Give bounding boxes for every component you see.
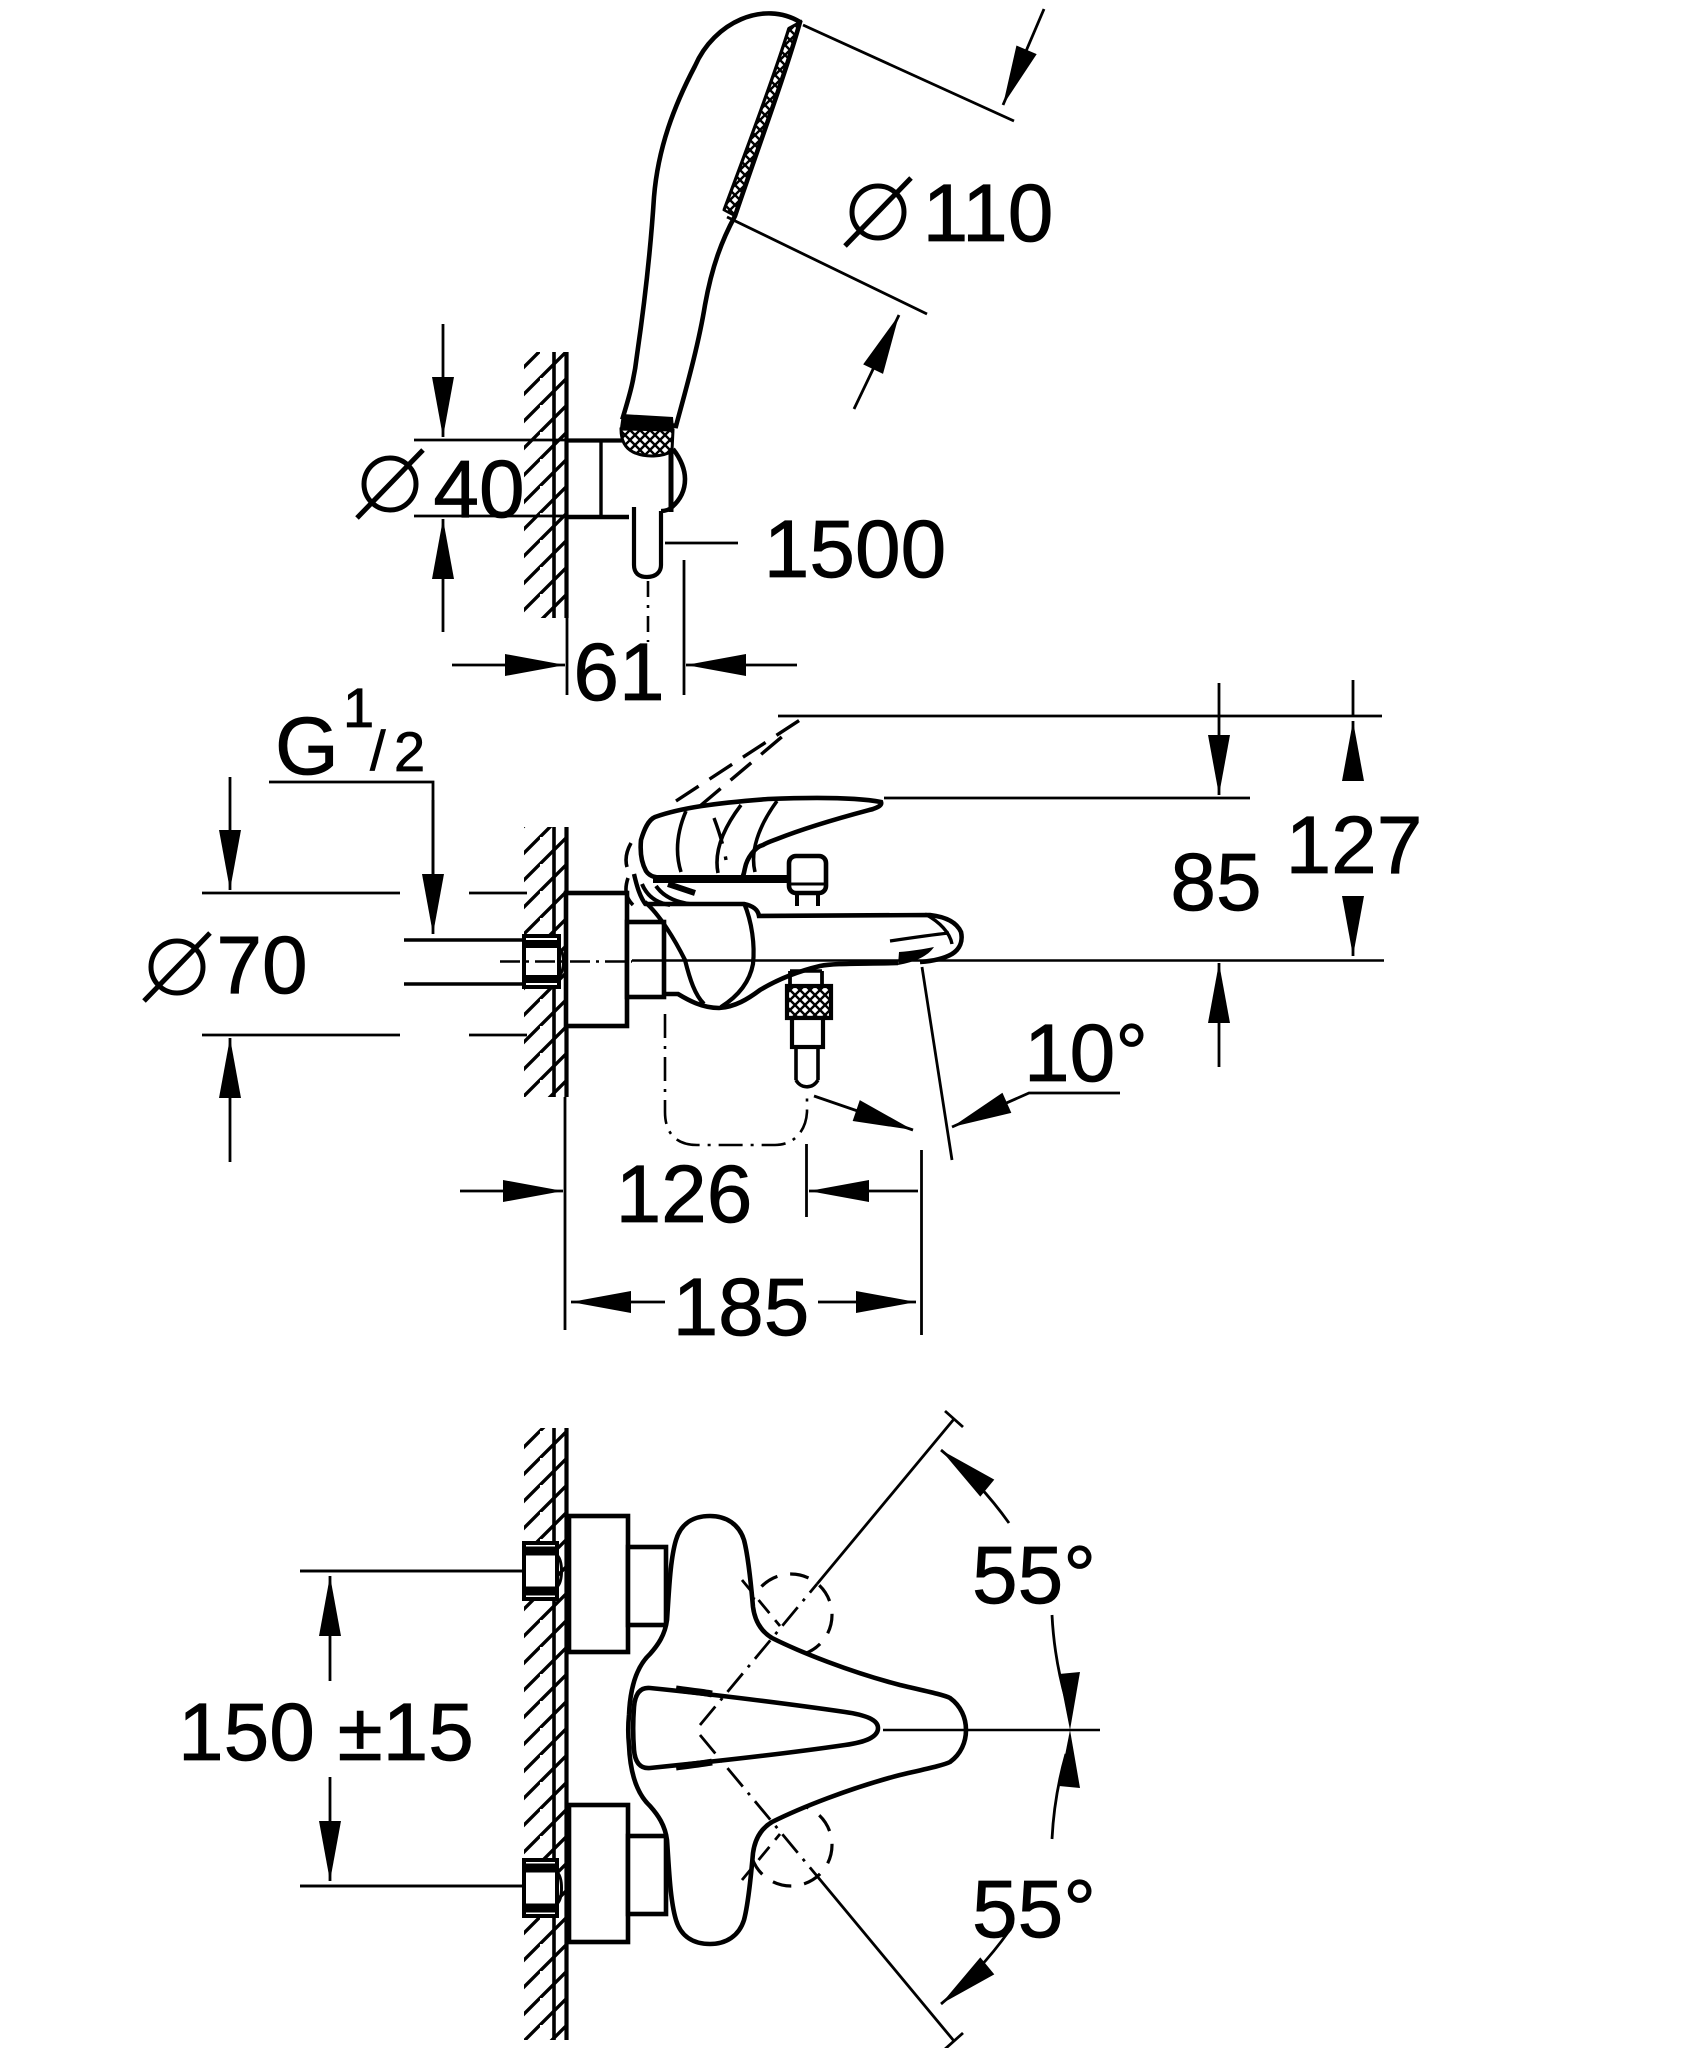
- svg-text:55°: 55°: [972, 1530, 1096, 1621]
- dimension Ø110 extension line lower: [727, 217, 927, 314]
- 55° angle arc lower: [941, 1931, 1009, 2004]
- label G 1/2: [275, 676, 425, 792]
- svg-text:61: 61: [573, 627, 664, 718]
- dimension G 1/2: [269, 782, 433, 880]
- check valve body: [792, 1018, 823, 1047]
- supply pipe: [404, 938, 524, 941]
- lever handle (solid): [641, 798, 882, 879]
- 55° angle arc upper: [941, 1450, 1009, 1523]
- top supply line: [300, 1570, 524, 1573]
- lever inner contour thick blobs: [676, 1689, 712, 1767]
- bottom supply line: [300, 1885, 524, 1888]
- top union: [628, 1547, 666, 1625]
- label 61: [573, 627, 664, 718]
- svg-text:185: 185: [673, 1262, 810, 1353]
- label 126: [616, 1149, 753, 1240]
- diverter knob: [789, 856, 826, 893]
- 10° angle arc with arrow: [814, 1096, 913, 1130]
- rotated knob axis dashes upper: [742, 1580, 780, 1626]
- handle collar: [642, 884, 690, 905]
- svg-text:/: /: [370, 719, 386, 782]
- bottom escutcheon: [569, 1805, 628, 1942]
- hose hanging loop (dash-dot): [665, 1014, 807, 1145]
- svg-text:70: 70: [216, 920, 307, 1011]
- label 85: [1170, 837, 1261, 928]
- svg-text:150 ±15: 150 ±15: [178, 1687, 474, 1778]
- dimension Ø70 arrows: [229, 777, 232, 890]
- bowtie arrows on centerline: [1059, 1672, 1080, 1730]
- dimension Ø110 extension line upper: [803, 25, 1014, 121]
- union connector: [627, 922, 664, 997]
- reference line lever tip (85 top): [884, 797, 1250, 800]
- dimension 185 arrows: [571, 1301, 665, 1304]
- wall hatch (bottom view): [524, 1428, 566, 2040]
- top hex nut: [524, 1543, 562, 1599]
- label 10°: [1024, 1008, 1148, 1099]
- shower face inner line: [724, 28, 789, 210]
- dimension 85 arrows: [1218, 683, 1221, 795]
- leader line 1500: [665, 542, 738, 545]
- bottom hex nut: [524, 1860, 562, 1916]
- top escutcheon: [569, 1516, 628, 1652]
- dimension 126 arrows: [460, 1190, 563, 1193]
- lever tail motion arcs: [626, 843, 633, 905]
- svg-text:10°: 10°: [1024, 1008, 1148, 1099]
- svg-text:85: 85: [1170, 837, 1261, 928]
- escutcheon (middle view): [566, 893, 627, 1026]
- dimension Ø40 arrow upper: [442, 324, 445, 437]
- label 55° lower: [972, 1864, 1096, 1955]
- rotated lever axis (solid, lower): [817, 1876, 954, 2041]
- shower cone crosshatch nut: [621, 429, 673, 456]
- dimension 61 arrows: [452, 664, 565, 667]
- hose centerline (dash-dot): [647, 581, 650, 642]
- shower handle butt black band: [620, 414, 674, 430]
- raised lever (dashed): [676, 718, 803, 860]
- hand shower head and handle: [623, 13, 800, 426]
- dimension 127 arrows: [1352, 680, 1355, 717]
- dimension Ø110 arrow upper: [1003, 9, 1044, 105]
- reference line raised lever (127 top): [778, 715, 1382, 718]
- label 185: [673, 1262, 810, 1353]
- svg-text:40: 40: [433, 444, 524, 535]
- dimension 61 extension lines: [566, 618, 569, 695]
- shower hose below holder: [634, 507, 672, 577]
- svg-text:126: 126: [616, 1149, 753, 1240]
- svg-text:1500: 1500: [764, 504, 946, 595]
- mixer body and handle (front view): [628, 1516, 966, 1944]
- wall (top view): [552, 352, 556, 618]
- hose extension line (126): [805, 1144, 808, 1217]
- dimension 150 extension lines: [300, 1570, 524, 1573]
- dimension 150 arrows: [329, 1576, 332, 1681]
- label 1500: [764, 504, 946, 595]
- lever bottom band: [653, 875, 788, 883]
- check valve stems: [788, 971, 792, 987]
- spout 10° tilted line: [922, 967, 952, 1160]
- spout underside: [664, 963, 898, 1008]
- pipe centerline (dash-dot): [500, 960, 632, 962]
- wall (middle view): [552, 827, 556, 1097]
- dimension Ø110 arrow lower: [854, 315, 899, 409]
- center reference line: [883, 1729, 1100, 1731]
- wall hatch (middle view): [524, 827, 566, 1097]
- spout tip extension line: [920, 1150, 923, 1335]
- wall (bottom view): [552, 1428, 556, 2040]
- label 55° upper: [972, 1530, 1096, 1621]
- label Ø110: [923, 168, 1054, 259]
- hex nut on supply: [524, 936, 564, 987]
- 10° leader with arrow: [952, 1093, 1120, 1127]
- bottom union: [628, 1836, 666, 1914]
- spout inner line: [925, 914, 952, 944]
- lever interior sculpt lines: [678, 801, 777, 873]
- rotated knob axis dashes lower: [742, 1834, 780, 1880]
- handle rotated positions (dashed circles): [750, 1574, 832, 1656]
- svg-text:110: 110: [923, 168, 1054, 259]
- spout lip (aerator): [898, 947, 934, 965]
- wall hatch (top view): [524, 352, 566, 618]
- wall extension line below (126/185): [564, 1097, 567, 1330]
- lever (front view, inner contour): [633, 1688, 878, 1768]
- shower butt edge in holder: [669, 451, 674, 512]
- label 127: [1286, 800, 1423, 891]
- holder ball clip: [672, 449, 685, 507]
- shower face spray band (crosshatch): [724, 22, 800, 216]
- hose nipple: [796, 1047, 818, 1087]
- body centerline: [632, 959, 1384, 961]
- label Ø40: [433, 444, 524, 535]
- svg-text:2: 2: [394, 720, 425, 783]
- svg-text:127: 127: [1286, 800, 1423, 891]
- label 150 ±15: [178, 1687, 474, 1778]
- shower holder bracket: [567, 438, 622, 442]
- mixer body deck and spout nose: [645, 904, 962, 962]
- label Ø70: [216, 920, 307, 1011]
- check valve crosshatch nut: [787, 986, 831, 1018]
- escutcheon cap edge: [634, 874, 646, 905]
- rotated lever axis (dash-dot, lower): [700, 1735, 817, 1876]
- cartridge dome: [645, 902, 754, 1007]
- spout nose inner line: [890, 933, 949, 941]
- svg-text:55°: 55°: [972, 1864, 1096, 1955]
- dimension Ø40 extension lines: [414, 439, 567, 442]
- rotated lever axis (solid, upper): [817, 1419, 954, 1584]
- svg-text:G: G: [275, 701, 339, 792]
- dimension Ø40 arrow lower: [442, 519, 445, 632]
- dimension Ø70 extension lines: [202, 892, 400, 895]
- rotated lever axis (dash-dot, upper): [700, 1584, 817, 1725]
